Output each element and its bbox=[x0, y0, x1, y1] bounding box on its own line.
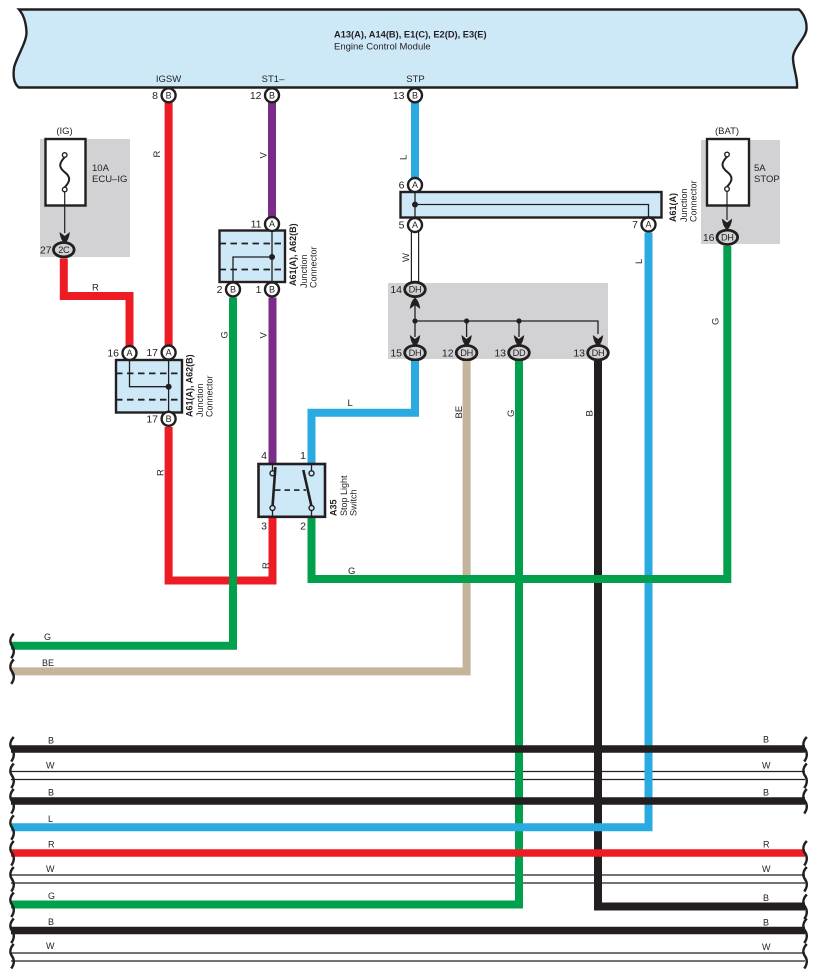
svg-text:Connector: Connector bbox=[205, 375, 215, 417]
wire stem fuse IG to pin 27 bbox=[64, 192, 66, 233]
svg-text:Junction: Junction bbox=[679, 188, 689, 222]
svg-text:10A: 10A bbox=[92, 163, 110, 174]
svg-text:Connector: Connector bbox=[689, 180, 699, 222]
svg-text:G: G bbox=[48, 891, 55, 901]
switch right blade bbox=[303, 470, 311, 506]
svg-text:DH: DH bbox=[409, 348, 422, 358]
switch dashed link bbox=[275, 489, 306, 491]
arrow into pin 13(DD) bbox=[514, 335, 524, 347]
svg-text:B: B bbox=[48, 736, 54, 746]
R bus breaks bbox=[10, 841, 13, 866]
svg-text:G: G bbox=[44, 632, 51, 642]
pin 12(B) bbox=[250, 88, 279, 102]
svg-text:L: L bbox=[48, 814, 53, 824]
svg-text:G: G bbox=[220, 331, 231, 338]
pin 27 (2C) bbox=[40, 243, 74, 257]
fuse 10A ECU-IG body bbox=[46, 139, 128, 206]
svg-text:5: 5 bbox=[399, 220, 405, 232]
svg-text:A: A bbox=[269, 219, 275, 229]
wire W: pin 5(A) to pin 14(DH) bbox=[411, 232, 418, 284]
svg-text:A: A bbox=[166, 348, 172, 358]
svg-text:A: A bbox=[412, 220, 418, 230]
svg-text:R: R bbox=[152, 151, 163, 158]
W bus 3 breaks bbox=[10, 944, 13, 969]
pin 15 (DH) bbox=[390, 346, 425, 360]
svg-text:15: 15 bbox=[390, 347, 402, 359]
svg-text:W: W bbox=[762, 942, 771, 952]
svg-text:13: 13 bbox=[494, 347, 506, 359]
svg-text:B: B bbox=[763, 918, 769, 928]
svg-text:16: 16 bbox=[703, 232, 715, 244]
svg-text:2: 2 bbox=[300, 521, 306, 533]
switch left fixed contact bbox=[270, 464, 275, 476]
svg-text:B: B bbox=[230, 285, 236, 295]
wire G: pin 2(B) to left break bbox=[11, 298, 233, 646]
svg-text:1: 1 bbox=[256, 284, 262, 296]
svg-text:Junction: Junction bbox=[299, 254, 309, 288]
svg-text:G: G bbox=[506, 410, 517, 417]
svg-text:2: 2 bbox=[217, 284, 223, 296]
middle connector name A61(A), A62(B) Junction Connector bbox=[288, 223, 319, 288]
svg-text:R: R bbox=[48, 840, 55, 850]
svg-text:B: B bbox=[412, 91, 418, 101]
svg-text:W: W bbox=[46, 864, 55, 874]
svg-text:B: B bbox=[48, 917, 54, 927]
W bus 1 lines bbox=[11, 772, 805, 780]
pin 5(A) bbox=[399, 218, 422, 232]
inner wire 11(A) to 1(B) bbox=[271, 231, 273, 283]
svg-text:12: 12 bbox=[250, 90, 262, 102]
wire V: pin 12(B) to junction pin 11(A) bbox=[268, 101, 276, 218]
fuse 5A STOP body bbox=[707, 139, 780, 206]
svg-text:27: 27 bbox=[40, 245, 52, 257]
wire stem pin 14 to distribution line bbox=[414, 303, 416, 321]
svg-text:STP: STP bbox=[406, 74, 424, 85]
junction connector A61(A),A62(B) middle box bbox=[220, 231, 286, 283]
inner wire 16(A) to junction dot bbox=[130, 360, 169, 387]
svg-text:Engine Control Module: Engine Control Module bbox=[334, 42, 431, 53]
svg-text:2C: 2C bbox=[58, 245, 70, 255]
fuse 10A ECU-IG gray background bbox=[40, 139, 130, 257]
switch name A35 Stop Light Switch bbox=[329, 475, 359, 516]
svg-text:DH: DH bbox=[721, 232, 734, 242]
svg-text:B: B bbox=[166, 91, 172, 101]
wire L: pin 15(DH) to switch pin 1 bbox=[312, 361, 416, 464]
svg-text:R: R bbox=[763, 840, 770, 850]
junction dot middle connector bbox=[269, 254, 275, 260]
svg-text:4: 4 bbox=[261, 450, 267, 462]
svg-text:G: G bbox=[711, 318, 722, 325]
pin 12 (DH) bbox=[442, 346, 477, 360]
svg-text:A: A bbox=[126, 348, 132, 358]
switch right fixed contact bbox=[309, 464, 314, 476]
B bus 2 breaks bbox=[10, 789, 13, 814]
arrow into pin 16 bbox=[722, 219, 732, 231]
svg-text:V: V bbox=[259, 152, 270, 159]
svg-text:17: 17 bbox=[146, 413, 158, 425]
switch right bottom contact bbox=[309, 506, 314, 517]
svg-text:17: 17 bbox=[146, 347, 158, 359]
svg-text:R: R bbox=[261, 562, 272, 569]
switch left blade bbox=[273, 467, 276, 506]
pin 2(B) bbox=[217, 282, 240, 296]
svg-text:(BAT): (BAT) bbox=[715, 126, 739, 137]
svg-text:14: 14 bbox=[390, 284, 402, 296]
svg-text:12: 12 bbox=[442, 347, 454, 359]
wire R main: pin 8(B) to junction pin 17(A) bbox=[165, 101, 173, 347]
svg-text:Stop Light: Stop Light bbox=[339, 475, 349, 516]
junction dot at 12 bbox=[464, 318, 469, 323]
switch left bottom contact bbox=[270, 506, 275, 517]
svg-text:A61(A): A61(A) bbox=[668, 193, 678, 222]
junction connector A61(A) horizontal box bbox=[401, 192, 662, 218]
svg-text:DD: DD bbox=[513, 348, 526, 358]
W bus 2 lines bbox=[11, 875, 805, 883]
junction dot at 13 bbox=[516, 318, 521, 323]
svg-text:BE: BE bbox=[42, 658, 54, 668]
svg-text:11: 11 bbox=[251, 219, 262, 231]
svg-text:A35: A35 bbox=[329, 499, 339, 516]
wire L: pin 7(A) to L bus bbox=[11, 233, 649, 828]
svg-text:L: L bbox=[348, 398, 353, 409]
svg-text:W: W bbox=[46, 941, 55, 951]
pin 13 (DH) bbox=[573, 346, 608, 360]
B bus 3 bbox=[11, 927, 805, 935]
svg-text:DH: DH bbox=[592, 348, 605, 358]
arrow up into pin 14(DH) bbox=[410, 298, 420, 310]
junction dot at 15 bbox=[412, 318, 417, 323]
svg-text:A: A bbox=[412, 180, 418, 190]
wire B: pin 13(DH) to right break bbox=[598, 361, 805, 907]
stem to pin 12 bbox=[466, 321, 468, 337]
svg-text:IGSW: IGSW bbox=[156, 74, 181, 85]
svg-text:W: W bbox=[401, 253, 412, 262]
wire R: pin 27(2C) to junction pin 16(A) bbox=[64, 259, 130, 348]
svg-text:A61(A), A62(B): A61(A), A62(B) bbox=[288, 223, 298, 286]
svg-text:STOP: STOP bbox=[754, 174, 780, 185]
left connector name A61(A), A62(B) Junction Connector bbox=[185, 354, 215, 417]
svg-text:(IG): (IG) bbox=[56, 126, 72, 137]
junction connector A61(A),A62(B) left box bbox=[116, 360, 182, 413]
svg-text:A13(A), A14(B), E1(C), E2(D),: A13(A), A14(B), E1(C), E2(D), E3(E) bbox=[334, 30, 487, 40]
svg-text:13: 13 bbox=[573, 347, 585, 359]
wire G: switch pin 2 to pin 16(DH) bbox=[312, 246, 728, 579]
wire stem fuse BAT to pin 16 bbox=[726, 191, 728, 220]
wire G: pin 13(DD) to G bus bbox=[11, 361, 519, 905]
svg-text:A61(A), A62(B): A61(A), A62(B) bbox=[185, 354, 195, 417]
B partial bus break bbox=[803, 895, 806, 920]
pin 16 (DH) bbox=[703, 230, 738, 244]
A61(A) horizontal connector name bbox=[668, 180, 699, 222]
B bus 2 bbox=[11, 797, 805, 805]
svg-text:B: B bbox=[269, 285, 275, 295]
junction dot left connector bbox=[166, 384, 172, 390]
inner wire 6(A) to 5(A) bbox=[414, 185, 416, 225]
svg-text:G: G bbox=[348, 566, 355, 577]
pin 13 (DD) bbox=[494, 346, 529, 360]
svg-text:5A: 5A bbox=[754, 163, 766, 174]
svg-text:7: 7 bbox=[632, 219, 638, 231]
svg-text:ST1–: ST1– bbox=[262, 74, 285, 85]
pin 8(B) bbox=[152, 88, 175, 102]
svg-text:W: W bbox=[46, 761, 55, 771]
svg-text:A: A bbox=[645, 220, 651, 230]
svg-text:B: B bbox=[48, 788, 54, 798]
arrow into pin 12(DH) bbox=[461, 335, 471, 347]
inner wire junction dot to 2(B) bbox=[233, 257, 272, 282]
wire R: pin 17(B) to switch pin 3 bbox=[169, 427, 273, 581]
stem to pin 13 DD bbox=[518, 321, 520, 337]
W bus 1 breaks bbox=[10, 764, 13, 789]
pin 13(B) bbox=[393, 88, 422, 102]
R bus bbox=[11, 849, 805, 857]
pin 17(B) bbox=[146, 412, 175, 426]
pin 6(A) bbox=[399, 178, 422, 192]
svg-text:L: L bbox=[634, 259, 645, 264]
pin 14 (DH) bbox=[390, 282, 425, 296]
stem to pin 15 bbox=[414, 321, 416, 337]
B bus 1 breaks bbox=[10, 737, 13, 762]
svg-text:W: W bbox=[762, 761, 771, 771]
G bus short break bbox=[10, 634, 13, 659]
svg-text:ECU–IG: ECU–IG bbox=[92, 174, 127, 185]
svg-text:V: V bbox=[259, 332, 270, 339]
svg-text:L: L bbox=[399, 155, 410, 160]
junction dot A61 horizontal bbox=[412, 202, 418, 208]
svg-text:BE: BE bbox=[454, 406, 465, 419]
BE bus short break bbox=[10, 659, 13, 684]
pin 7(A) bbox=[632, 218, 655, 232]
svg-text:DH: DH bbox=[409, 285, 422, 295]
stop light switch A35 box bbox=[259, 464, 326, 517]
svg-text:B: B bbox=[269, 91, 275, 101]
inner wire junction dot to pin 7(A) bbox=[415, 205, 649, 219]
L bus break bbox=[10, 815, 13, 840]
svg-text:R: R bbox=[156, 469, 167, 476]
svg-text:R: R bbox=[92, 283, 99, 294]
gray junction background box bbox=[388, 283, 608, 359]
arrow into pin 15(DH) bbox=[410, 335, 420, 347]
G bus break bbox=[10, 893, 13, 918]
B bus 3 breaks bbox=[10, 919, 13, 944]
svg-text:DH: DH bbox=[460, 348, 473, 358]
svg-text:B: B bbox=[763, 893, 769, 903]
svg-text:13: 13 bbox=[393, 90, 405, 102]
svg-text:B: B bbox=[763, 735, 769, 745]
svg-text:16: 16 bbox=[107, 348, 119, 360]
svg-text:W: W bbox=[762, 864, 771, 874]
B bus 1 bbox=[11, 745, 805, 753]
arrow into pin 27 bbox=[60, 232, 70, 244]
svg-text:Switch: Switch bbox=[349, 489, 359, 516]
svg-text:1: 1 bbox=[300, 450, 306, 462]
pin 11(A) bbox=[251, 217, 279, 231]
W bus 2 breaks bbox=[10, 867, 13, 892]
pin 16(A) bbox=[107, 346, 136, 360]
svg-text:8: 8 bbox=[152, 90, 158, 102]
inner wire 17(A) to 17(B) bbox=[168, 360, 170, 413]
W bus 3 lines bbox=[11, 953, 805, 961]
svg-text:6: 6 bbox=[399, 180, 405, 192]
wire BE: pin 12(DH) to left break bbox=[11, 361, 467, 671]
arrow into pin 13(DH) bbox=[593, 335, 603, 347]
svg-text:B: B bbox=[166, 414, 172, 424]
svg-text:B: B bbox=[585, 410, 596, 416]
wire V: pin 1(B) to switch pin 4 bbox=[269, 298, 277, 465]
svg-text:Connector: Connector bbox=[309, 246, 319, 288]
pin 1(B) bbox=[256, 282, 279, 296]
wire L: pin 13(B) to junction pin 6(A) bbox=[411, 101, 419, 179]
distribution line bbox=[415, 321, 598, 334]
svg-text:3: 3 bbox=[261, 521, 267, 533]
svg-text:Junction: Junction bbox=[195, 383, 205, 417]
ECU banner A13(A), A14(B), E1(C), E2(D), E3(E) bbox=[14, 10, 807, 88]
fuse 5A STOP gray background bbox=[701, 140, 780, 244]
svg-text:B: B bbox=[763, 788, 769, 798]
pin 17(A) bbox=[146, 346, 175, 360]
